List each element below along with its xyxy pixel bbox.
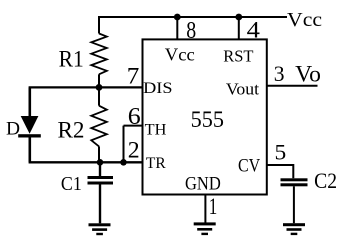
wire: pin 4 vertical	[238, 17, 240, 39]
svg-text:7: 7	[127, 63, 140, 88]
node junction dot R1/R2/DIS	[96, 84, 103, 91]
node junction dot at TH jog	[120, 159, 127, 166]
svg-text:2: 2	[128, 137, 140, 162]
capacitor C1 bottom plate	[88, 182, 114, 185]
resistor R2 top wire	[98, 87, 100, 105]
wire: pin 5 CV horizontal + down	[267, 165, 294, 178]
wire: C2 to ground	[293, 186, 295, 223]
diode D anode wire	[28, 87, 31, 117]
svg-text:GND: GND	[185, 173, 221, 193]
svg-text:8: 8	[186, 17, 196, 44]
svg-text:4: 4	[247, 17, 261, 42]
svg-text:C1: C1	[61, 173, 82, 195]
svg-text:DIS: DIS	[143, 80, 172, 97]
resistor R1 zigzag	[91, 34, 107, 75]
wire: TH vertical jog	[123, 126, 125, 163]
svg-text:R2: R2	[57, 118, 84, 144]
capacitor C1 top plate	[88, 176, 114, 179]
diode D cathode bar	[18, 134, 41, 137]
wire: TH pin 6 horizontal	[124, 125, 143, 127]
wire: diode cathode down	[28, 138, 31, 163]
svg-text:C2: C2	[314, 168, 337, 193]
svg-text:D: D	[6, 118, 20, 139]
svg-text:1: 1	[209, 194, 218, 219]
svg-text:6: 6	[128, 104, 141, 130]
ground under C2	[283, 223, 305, 235]
svg-text:RST: RST	[223, 47, 254, 66]
wire: top Vcc rail	[99, 17, 287, 34]
ground under pin 1	[194, 222, 216, 235]
svg-text:TR: TR	[146, 155, 166, 172]
diode D triangle	[21, 116, 39, 134]
svg-text:Vout: Vout	[226, 79, 260, 98]
wire: R1 bottom to node	[98, 74, 100, 87]
svg-text:555: 555	[191, 107, 224, 132]
svg-text:3: 3	[274, 61, 285, 86]
IC 555 body U1	[143, 39, 267, 194]
wire: C1 to ground	[99, 185, 101, 224]
svg-text:TH: TH	[145, 122, 167, 139]
node junction dot at R2/C1	[97, 159, 104, 166]
node junction dot on rail at pin 4	[235, 14, 242, 21]
capacitor C1 top wire	[99, 162, 101, 176]
svg-text:CV: CV	[238, 155, 261, 175]
ground under C1	[89, 223, 111, 235]
wire: pin 3 Vout horizontal	[267, 85, 318, 87]
svg-text:5: 5	[275, 139, 287, 164]
svg-text:R1: R1	[59, 45, 84, 71]
wire: mid horizontal node to DIS pin 7	[29, 86, 143, 88]
wire: pin 8 vertical	[176, 17, 178, 39]
capacitor C2 top plate	[281, 178, 308, 181]
node junction dot on rail at pin 8	[174, 14, 181, 21]
svg-text:Vo: Vo	[295, 61, 321, 87]
wire: R2 bottom to node	[98, 146, 100, 162]
svg-text:Vcc: Vcc	[165, 44, 195, 64]
wire: pin 1 GND vertical	[204, 195, 206, 223]
wire: bottom horizontal rail to TR pin 2	[29, 161, 143, 163]
resistor R2 zigzag	[91, 106, 107, 147]
svg-text:Vcc: Vcc	[287, 9, 322, 31]
capacitor C2 bottom plate	[281, 183, 308, 186]
